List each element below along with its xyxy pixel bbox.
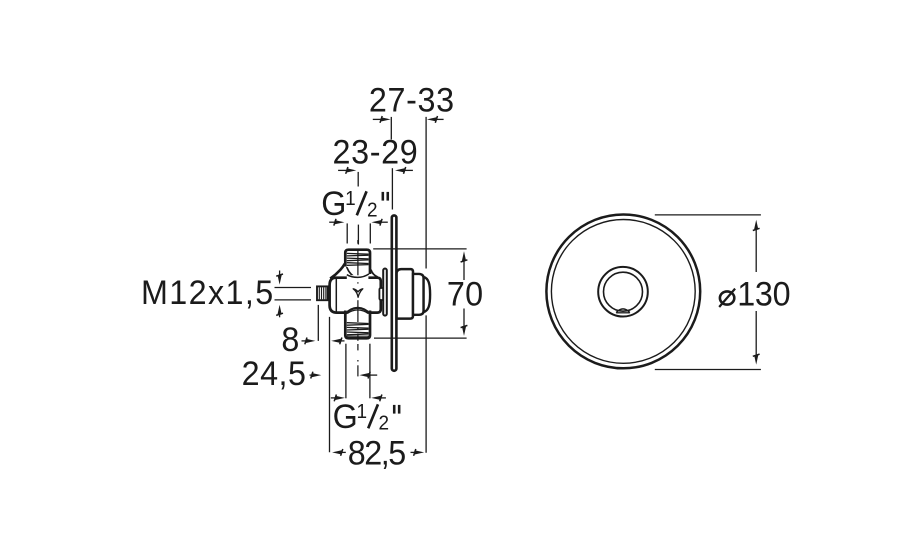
- svg-text:24,5: 24,5: [242, 355, 306, 393]
- svg-text:1: 1: [345, 188, 356, 211]
- svg-text:1: 1: [357, 401, 368, 424]
- svg-text:2: 2: [367, 199, 378, 222]
- svg-text:27-33: 27-33: [369, 82, 454, 120]
- svg-text:2: 2: [378, 412, 389, 435]
- svg-text:G: G: [333, 398, 358, 436]
- svg-text:M12x1,5: M12x1,5: [141, 274, 273, 312]
- svg-text:82,5: 82,5: [348, 435, 406, 473]
- svg-text:130: 130: [737, 276, 790, 314]
- svg-text:70: 70: [447, 276, 483, 314]
- svg-text:23-29: 23-29: [332, 134, 417, 172]
- svg-text:G: G: [321, 185, 346, 223]
- svg-text:8: 8: [281, 321, 299, 359]
